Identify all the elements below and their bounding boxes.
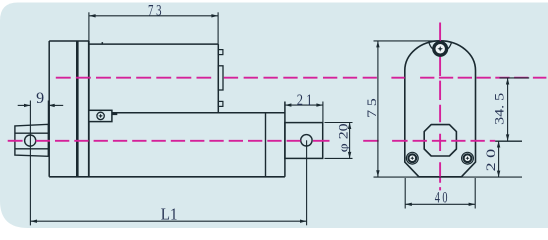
svg-text:34. 5: 34. 5 [492,93,507,125]
svg-text:9: 9 [36,90,44,107]
svg-text:2 0: 2 0 [483,149,498,172]
svg-text:2 1: 2 1 [297,92,313,109]
svg-text:4 0: 4 0 [435,190,448,207]
svg-text:φ 20: φ 20 [336,123,351,152]
svg-text:7 3: 7 3 [148,3,162,20]
svg-text:7 5: 7 5 [364,98,379,118]
svg-text:L1: L1 [161,205,178,224]
